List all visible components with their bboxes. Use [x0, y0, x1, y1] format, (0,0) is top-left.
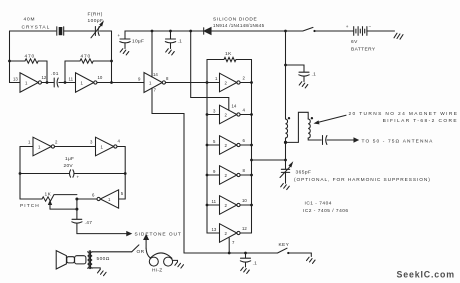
capacitor trimmer 100pF: [91, 22, 103, 38]
svg-text:10μF: 10μF: [132, 39, 144, 45]
svg-text:365pF: 365pF: [296, 170, 312, 176]
svg-text:5: 5: [121, 191, 124, 196]
svg-text:.47: .47: [85, 220, 93, 226]
svg-text:6: 6: [243, 138, 246, 143]
svg-text:+: +: [118, 33, 121, 38]
node junction dots crystal loop: [8, 60, 113, 84]
ground below C7: [281, 183, 290, 189]
inverter U2C pins 5-6: [207, 136, 252, 155]
capacitor C6 antenna coupling: [323, 136, 359, 145]
wire crystal to trimmer: [64, 30, 95, 32]
svg-text:SILICON DIODE: SILICON DIODE: [213, 17, 257, 23]
svg-text:14: 14: [153, 72, 158, 77]
transformer T2 500 ohm: [88, 251, 110, 269]
svg-text:+: +: [77, 175, 80, 180]
svg-text:11: 11: [69, 77, 74, 82]
wire supply rail left segment: [125, 31, 204, 39]
chassis ground right: [394, 33, 403, 39]
svg-text:20V: 20V: [64, 163, 74, 169]
svg-text:11: 11: [212, 199, 217, 204]
wire IC1 pin7 to keyed ground: [152, 88, 184, 253]
wire sidetone out with arrow: [77, 231, 182, 237]
svg-text:7: 7: [232, 240, 235, 245]
svg-text:IC1 - 7404: IC1 - 7404: [305, 201, 332, 207]
inverter U1B pins 11-10: [65, 73, 112, 92]
svg-text:BATTERY: BATTERY: [351, 47, 376, 53]
svg-text:1K: 1K: [225, 51, 232, 57]
svg-text:12: 12: [42, 75, 47, 80]
wire crystal loop top left: [10, 30, 57, 32]
wire supply branch to IC2 pin 14: [191, 31, 229, 110]
inverter U1C buffer pins 9-8: [138, 72, 169, 93]
inverter U1E pins 3-4: [90, 137, 121, 156]
wire supply rail middle segment: [211, 30, 303, 32]
svg-text:13: 13: [13, 77, 18, 82]
wire trimmer to right vertical: [100, 30, 112, 32]
ground below C5: [299, 82, 308, 88]
capacitor C2 10uF electrolytic: [118, 33, 145, 49]
crystal Y1 40M: [57, 27, 64, 35]
battery BT1 6V: [346, 24, 376, 53]
svg-text:1: 1: [215, 76, 218, 81]
svg-text:3: 3: [213, 109, 216, 114]
svg-text:8: 8: [166, 76, 169, 81]
ground below C4: [241, 267, 250, 273]
svg-text:13: 13: [212, 227, 217, 232]
capacitor C1 .01: [47, 71, 65, 87]
svg-text:TO 50 - 75Ω ANTENNA: TO 50 - 75Ω ANTENNA: [362, 138, 434, 144]
inverter U2E pins 11-10: [207, 196, 252, 215]
svg-text:40M: 40M: [24, 17, 36, 23]
svg-text:KEY: KEY: [279, 242, 290, 248]
resistor R3 1K bias: [207, 51, 252, 62]
wire output bus tap to transformer: [252, 159, 286, 161]
svg-text:7: 7: [154, 88, 157, 93]
ground below C2: [120, 49, 129, 55]
svg-text:SeekIC.com: SeekIC.com: [397, 270, 455, 280]
svg-text:3: 3: [90, 140, 93, 145]
svg-text:4: 4: [118, 139, 121, 144]
resistor R4 1K pitch pot: [20, 192, 77, 210]
wire IC1 pin14 to supply rail: [151, 31, 153, 77]
wire pointer from label to windings: [317, 115, 347, 123]
svg-text:−: −: [369, 24, 372, 29]
label 365pF optional: [294, 170, 431, 215]
svg-text:SIDETONE OUT: SIDETONE OUT: [135, 231, 182, 237]
wire crystal loop right vertical: [111, 31, 113, 83]
svg-text:14: 14: [232, 104, 237, 109]
svg-text:.1: .1: [312, 72, 317, 78]
wire bifilar series link: [286, 112, 309, 142]
svg-text:OR: OR: [137, 249, 145, 255]
headphones HI-Z: [144, 235, 178, 273]
label silicon diode: [213, 17, 265, 29]
switch S2 key: [278, 242, 312, 257]
wire secondary to coupling capacitor: [308, 138, 321, 140]
ground key switch: [307, 257, 316, 263]
switch S1 power: [303, 27, 354, 31]
speaker LS1: [56, 251, 86, 269]
wire key line: [184, 252, 278, 254]
svg-text:6V: 6V: [351, 39, 358, 45]
svg-text:470: 470: [81, 53, 92, 59]
resistor R2 470: [65, 59, 112, 83]
capacitor C3 .1: [165, 31, 182, 49]
inverter U1D pins 1-2: [28, 137, 58, 156]
svg-text:2: 2: [243, 76, 246, 81]
label 20 turns magnet wire: [349, 111, 459, 124]
inverter U1A pins 13-12: [13, 73, 47, 92]
svg-text:PITCH: PITCH: [20, 203, 40, 209]
svg-text:1μF: 1μF: [65, 156, 74, 162]
svg-text:6: 6: [92, 193, 95, 198]
node junction dots key line: [228, 252, 290, 255]
capacitor C8 1uF 20V: [20, 156, 125, 180]
inverter U2A pins 1-2: [215, 73, 252, 92]
svg-text:1: 1: [28, 140, 31, 145]
wire battery to chassis ground: [367, 30, 395, 32]
wire IC2 pin7 to key line: [228, 238, 230, 253]
svg-text:F(RH): F(RH): [88, 12, 103, 18]
ground below C3: [166, 49, 175, 55]
svg-text:20 TURNS NO 24 MAGNET WIRE: 20 TURNS NO 24 MAGNET WIRE: [349, 111, 459, 117]
svg-text:.1: .1: [178, 39, 183, 45]
svg-text:9: 9: [138, 77, 141, 82]
svg-text:CRYSTAL: CRYSTAL: [22, 25, 51, 31]
node junction dots inverter bank: [206, 81, 253, 206]
svg-text:.01: .01: [51, 71, 59, 77]
capacitor C4 .1 key bypass: [240, 253, 257, 267]
wire audio feedback left vertical: [20, 147, 33, 200]
inverter U2D pins 9-8: [207, 166, 252, 185]
inverter U2B pins 3-4: [207, 104, 252, 124]
node phase dots transformer: [284, 64, 313, 162]
wire primary bottom to tap node: [285, 138, 287, 160]
wire E output to pot line: [77, 198, 97, 200]
node junction dots audio: [19, 172, 127, 211]
svg-text:470: 470: [25, 53, 36, 59]
label 40M CRYSTAL: [22, 12, 104, 31]
svg-text:HI-Z: HI-Z: [152, 268, 163, 274]
diode D1 silicon: [204, 28, 211, 35]
capacitor C9 .47: [72, 199, 93, 234]
svg-text:(OPTIONAL, FOR HARMONIC SUPPRE: (OPTIONAL, FOR HARMONIC SUPPRESSION): [294, 177, 431, 183]
svg-text:100pF: 100pF: [88, 18, 104, 24]
svg-text:12: 12: [242, 226, 247, 231]
svg-text:IC2 - 7405 / 7406: IC2 - 7405 / 7406: [303, 208, 349, 214]
wire buffer output to inverter bank input: [166, 82, 220, 84]
capacitor C7 365pF variable: [280, 160, 292, 183]
wire secondary top to OR lever: [92, 245, 145, 255]
wire supply down to transformer: [285, 31, 287, 119]
node junction dots supply rail: [151, 30, 316, 33]
wire crystal loop left vertical: [10, 31, 21, 83]
svg-text:8: 8: [243, 168, 246, 173]
svg-text:BIFILAR T-68-2 CORE: BIFILAR T-68-2 CORE: [383, 118, 458, 124]
resistor R1 470: [10, 59, 48, 83]
svg-text:4: 4: [243, 108, 246, 113]
wire U1D out to U1E in: [55, 146, 96, 148]
svg-text:+: +: [346, 24, 349, 29]
wire secondary bottom to ground: [92, 268, 100, 270]
svg-text:1K: 1K: [45, 192, 52, 198]
svg-text:500Ω: 500Ω: [97, 256, 110, 262]
svg-text:10: 10: [98, 75, 103, 80]
svg-text:5: 5: [213, 139, 216, 144]
wire oscillator output to buffer input: [112, 82, 145, 84]
wire IC2 output bus: [251, 60, 253, 234]
svg-text:.1: .1: [253, 261, 258, 267]
inverter U2F pins 13-12: [212, 224, 252, 245]
capacitor C5 .1 bypass: [286, 65, 317, 82]
svg-text:9: 9: [213, 169, 216, 174]
inverter U1F pins 5-6 mirrored: [92, 190, 124, 208]
svg-text:10: 10: [242, 198, 247, 203]
svg-text:2: 2: [55, 140, 58, 145]
transformer T1 secondary winding: [308, 119, 310, 138]
wire IC2 input bus: [207, 60, 220, 234]
ground below T2: [98, 270, 107, 276]
ground headphones: [175, 262, 184, 268]
wire U1E output right vertical: [117, 147, 125, 200]
transformer T1 primary winding: [286, 119, 288, 138]
wire pot wiper: [49, 201, 77, 209]
svg-text:1N914 /1N4148/1N645: 1N914 /1N4148/1N645: [213, 23, 265, 28]
